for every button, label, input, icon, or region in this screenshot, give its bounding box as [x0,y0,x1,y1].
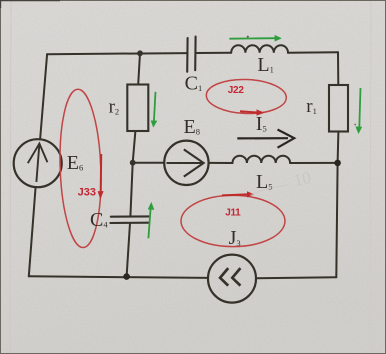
green arrow r2 (down) [151,92,157,127]
junction node bottom (C4 branch) [123,273,130,280]
wire top C1 to L1 [196,52,232,54]
resistor r1 [329,85,348,132]
arrow I5 [237,130,294,148]
wire right upper [337,52,339,85]
wire bottom left [29,276,208,278]
junction node right (L5/r1) [334,160,341,167]
green arrow L1 direction [229,35,281,41]
source E6 [14,139,62,187]
source J3 [208,255,256,303]
inductor L5 [233,156,291,163]
green arrow r1 (down) [356,88,362,134]
wire branch C4 to bottom node [127,223,130,277]
paper crease left [10,0,11,354]
wire right lower [336,132,338,278]
wire left upper [40,54,47,139]
svg-text:J22: J22 [228,85,245,96]
junction node top (r2 branch) [137,50,143,56]
wire L5 to right node [290,162,338,164]
wire E8 to L5 [209,162,233,164]
pencil speck near r1 arrow [354,124,356,126]
svg-text:J33: J33 [78,186,96,198]
svg-text:J11: J11 [225,208,241,219]
mesh ellipse J33 [57,89,103,249]
pencil speck near L1 arrow [247,36,249,38]
wire bottom right [256,277,336,278]
mesh ellipse J22 [206,78,287,115]
wire branch r2 to middle node [133,131,136,163]
wire top left segment [47,53,187,54]
wire left lower [29,187,36,276]
wire middle node to E8 [133,162,165,164]
capacitor C1 plates [187,37,195,72]
source E8 [164,141,208,185]
capacitor C4 plates [110,216,149,223]
paper crease right [370,0,371,354]
resistor r2 [127,85,148,132]
junction node middle (E8 branch) [130,160,136,166]
mesh arrow J33 [100,154,103,192]
mesh ellipse J11 [181,195,285,246]
mesh arrow J11 [222,194,248,195]
inductor L1 [231,45,288,53]
wire top L1 to right corner [288,51,338,53]
mesh arrow J22 [240,111,257,112]
wire branch middle node to C4 [130,163,132,217]
wire branch top node to r2 [138,53,140,84]
green arrow C4 (up) [148,202,154,238]
